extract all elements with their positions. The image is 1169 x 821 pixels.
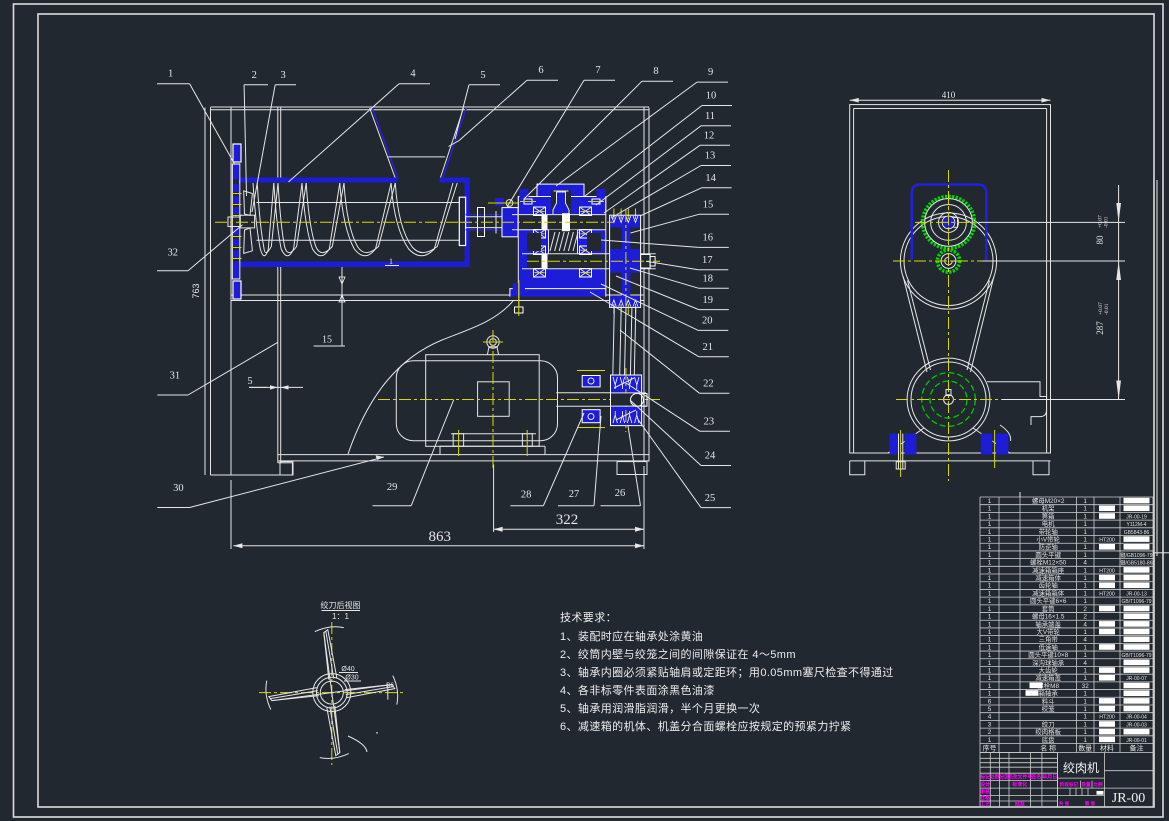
svg-text:6、减速箱的机体、机盖分合面螺栓应按规定的预紧力拧紧: 6、减速箱的机体、机盖分合面螺栓应按规定的预紧力拧紧 [560, 719, 852, 733]
svg-text:4: 4 [988, 714, 992, 721]
svg-text:1: 1 [1083, 544, 1087, 551]
svg-text:31: 31 [170, 370, 181, 381]
big gear white circles [925, 199, 973, 247]
motor horizontal centerline [378, 399, 660, 401]
svg-text:共 张: 共 张 [1059, 800, 1070, 807]
gear mesh hatch [550, 232, 555, 251]
big gear centerlines [915, 221, 978, 223]
upper shaft centerline [460, 221, 613, 223]
big pulley hub [610, 249, 641, 273]
svg-text:24: 24 [705, 451, 716, 462]
svg-text:1: 1 [988, 737, 992, 744]
side frame right corner foot [1033, 461, 1049, 475]
flange bottom cap [234, 282, 241, 299]
lower shaft bearings [534, 246, 546, 255]
belt right edge [971, 276, 995, 372]
svg-text:1: 1 [988, 691, 992, 698]
gearbox top bolts [524, 199, 532, 204]
motor center square [478, 382, 510, 417]
gearbox corner lugs [520, 189, 529, 197]
svg-text:19: 19 [703, 295, 714, 306]
svg-text:1: 1 [988, 590, 992, 597]
svg-text:Y112M-4: Y112M-4 [1127, 522, 1147, 528]
left blue foot [890, 434, 902, 455]
svg-text:GB/T1096-79: GB/T1096-79 [1121, 653, 1151, 659]
gearbox housing [518, 212, 606, 290]
hopper left wall [370, 108, 396, 179]
svg-text:1: 1 [988, 544, 992, 551]
bearing cap yellow marks [535, 211, 545, 213]
base right foot [617, 462, 647, 475]
cutter blade inner cross lines [324, 633, 340, 753]
hopper level line [388, 156, 445, 158]
gearbox top flange band [518, 197, 606, 213]
lower pulley green dashed circles [922, 373, 976, 427]
svg-text:8: 8 [653, 66, 658, 77]
small pulley vertical centerline [625, 368, 627, 432]
motor shaft [556, 392, 610, 394]
dimension 863 [233, 545, 644, 547]
lower shaft white spacer [542, 254, 548, 269]
title block grid [980, 753, 1153, 808]
lower pulley outer [907, 358, 990, 441]
svg-text:螺母M20×2: 螺母M20×2 [1032, 496, 1065, 505]
svg-text:1: 1 [988, 583, 992, 590]
svg-text:名 称: 名 称 [1040, 743, 1056, 752]
svg-text:Ø40: Ø40 [341, 666, 354, 673]
svg-text:4: 4 [1083, 621, 1087, 628]
svg-text:标记: 标记 [979, 774, 990, 781]
cutter centerline vertical [331, 622, 333, 765]
svg-text:29: 29 [387, 482, 398, 493]
svg-text:16: 16 [703, 233, 714, 244]
base plate [278, 454, 649, 456]
svg-text:第 张: 第 张 [1085, 800, 1096, 807]
svg-text:4、各非标零件表面涂黑色油漆: 4、各非标零件表面涂黑色油漆 [560, 683, 715, 697]
leader 30 arrowhead [376, 455, 384, 460]
svg-text:13: 13 [705, 151, 716, 162]
svg-text:JR-00-19: JR-00-19 [1126, 514, 1147, 520]
motor eyebolt [487, 336, 499, 348]
vertical main centerline [948, 170, 950, 481]
svg-text:80: 80 [1095, 235, 1105, 245]
lower pulley center [944, 395, 954, 405]
svg-text:1: 1 [1083, 644, 1087, 651]
svg-text:HT200: HT200 [1099, 591, 1115, 597]
small pulley shaft band [611, 393, 642, 406]
svg-text:深沟球轴承: 深沟球轴承 [1032, 658, 1065, 667]
gearbox side windows [527, 233, 541, 251]
svg-text:2、绞筒内壁与绞笼之间的间隙保证在 4～5mm: 2、绞筒内壁与绞笼之间的间隙保证在 4～5mm [560, 647, 796, 661]
auger barrel top band [239, 178, 398, 183]
svg-text:JR-00-01: JR-00-01 [1126, 738, 1147, 744]
svg-text:1: 1 [988, 537, 992, 544]
small pulley shaft end washer [631, 393, 644, 406]
svg-text:15: 15 [322, 335, 332, 346]
svg-text:30: 30 [173, 483, 184, 494]
svg-text:1: 1 [1083, 506, 1087, 513]
svg-text:17: 17 [702, 255, 713, 266]
svg-text:1: 1 [988, 652, 992, 659]
motor feet [451, 433, 536, 435]
lower shaft through gearbox [527, 254, 656, 269]
machine frame right wall [643, 108, 645, 462]
svg-text:1: 1 [1083, 675, 1087, 682]
svg-text:签名: 签名 [1030, 774, 1041, 781]
big gear green ring [923, 196, 975, 248]
technical requirements text block [560, 611, 894, 733]
svg-text:18: 18 [703, 274, 714, 285]
name leading white blocks rows 25-26 [1030, 683, 1043, 689]
svg-text:JR-00: JR-00 [1112, 791, 1145, 806]
small pulley hatch [614, 378, 634, 388]
svg-text:HT200: HT200 [1099, 568, 1115, 574]
svg-text:电机: 电机 [1042, 519, 1055, 528]
base left foot [280, 462, 293, 475]
dimension 80 with tolerance [1095, 215, 1110, 244]
gearbox input bolt [495, 198, 504, 206]
belt left edge [903, 276, 927, 372]
gearbox housing blue box [912, 185, 987, 261]
cutter blade left [269, 688, 319, 701]
svg-text:410: 410 [942, 90, 956, 100]
svg-text:键/GB5180-86: 键/GB5180-86 [1121, 560, 1153, 567]
svg-text:1: 1 [168, 69, 173, 80]
big pulley web [622, 227, 631, 296]
svg-text:JR-00-07: JR-00-07 [1126, 676, 1147, 682]
machine frame top [211, 106, 650, 108]
svg-text:32: 32 [1082, 683, 1090, 690]
svg-text:1: 1 [1083, 498, 1087, 505]
shaft slinger collar [478, 208, 485, 237]
svg-text:1: 1 [1083, 590, 1087, 597]
svg-text:1：1: 1：1 [332, 612, 349, 621]
svg-text:数量: 数量 [1078, 743, 1092, 752]
big gear keyway mark [954, 218, 958, 228]
svg-text:1: 1 [1083, 729, 1087, 736]
svg-text:批准: 批准 [1015, 801, 1025, 808]
auger shaft to gearbox [466, 214, 519, 216]
svg-text:质量: 质量 [1081, 781, 1091, 788]
svg-text:1: 1 [1083, 698, 1087, 705]
leader 6 tail [449, 141, 460, 147]
vertical dimension line [1118, 185, 1120, 400]
svg-text:JR-00-13: JR-00-13 [1126, 591, 1147, 597]
svg-text:3、轴承内圈必须紧贴轴肩或定距环；用0.05mm塞尺检查不得: 3、轴承内圈必须紧贴轴肩或定距环；用0.05mm塞尺检查不得通过 [560, 665, 894, 679]
svg-text:绞笼: 绞笼 [1042, 704, 1055, 713]
side frame left corner foot [850, 461, 865, 475]
svg-text:322: 322 [556, 512, 579, 528]
svg-text:1: 1 [988, 660, 992, 667]
svg-text:序号: 序号 [983, 743, 997, 752]
inner partition wall left [277, 108, 279, 178]
svg-text:大齿轮: 大齿轮 [1039, 666, 1059, 675]
gearbox housing white edges [517, 197, 519, 291]
hopper right wall [443, 108, 467, 178]
svg-text:26: 26 [615, 488, 626, 499]
svg-text:圆头平键10×8: 圆头平键10×8 [1028, 650, 1068, 659]
svg-text:防逆轴: 防逆轴 [1039, 542, 1058, 551]
svg-text:技术要求：: 技术要求： [560, 611, 617, 624]
title block small white box [1097, 791, 1104, 795]
svg-text:底盘: 底盘 [1042, 735, 1055, 744]
svg-text:1: 1 [988, 506, 992, 513]
svg-text:轴承端盖: 轴承端盖 [1035, 619, 1061, 628]
svg-text:螺母16×1.5: 螺母16×1.5 [1032, 612, 1065, 621]
svg-text:设计: 设计 [980, 781, 990, 788]
gearbox mounting bolt left [513, 283, 525, 296]
svg-text:圆头平键: 圆头平键 [1035, 550, 1061, 559]
svg-text:1: 1 [1083, 513, 1087, 520]
svg-text:料斗: 料斗 [1042, 696, 1055, 705]
svg-text:27: 27 [569, 489, 580, 500]
svg-text:28: 28 [521, 490, 532, 501]
dimension 410 top [850, 99, 1051, 101]
svg-text:1: 1 [1083, 652, 1087, 659]
big pulley top rim with V-grooves [610, 215, 641, 227]
auger barrel bottom band [239, 262, 469, 268]
upper shaft through gearbox [518, 215, 606, 230]
cutter hub circles [313, 674, 351, 712]
svg-text:1: 1 [1083, 567, 1087, 574]
svg-text:5: 5 [248, 376, 253, 387]
svg-text:4: 4 [410, 69, 416, 80]
svg-text:15: 15 [703, 200, 714, 211]
motor feet bolts yellow [458, 430, 460, 456]
svg-text:25: 25 [705, 493, 716, 504]
svg-text:HT200: HT200 [1099, 538, 1115, 544]
svg-text:机架: 机架 [1042, 504, 1055, 513]
big pulley bottom rim with V-grooves [610, 296, 641, 307]
auger centerline [215, 221, 460, 223]
svg-text:12: 12 [704, 131, 715, 142]
side frame bottom rail [850, 460, 1051, 462]
svg-text:1: 1 [1083, 714, 1087, 721]
BOM parts list table [980, 497, 1153, 753]
dimension 5 wall [249, 386, 303, 388]
svg-text:阶段标记: 阶段标记 [1060, 781, 1079, 788]
svg-text:工艺: 工艺 [980, 801, 990, 808]
dimension 287 with tolerance [1095, 302, 1110, 335]
motor body outer [396, 361, 557, 441]
shaft coupling flange [502, 208, 518, 237]
svg-text:21: 21 [703, 342, 714, 353]
upper shaft bearings [534, 207, 546, 216]
svg-text:GB5843-86: GB5843-86 [1124, 530, 1150, 536]
svg-text:2: 2 [988, 729, 992, 736]
svg-text:10: 10 [706, 91, 717, 102]
side view frame [850, 105, 1051, 453]
svg-text:备注: 备注 [1130, 743, 1144, 752]
cutter centerline horizontal [259, 692, 403, 694]
svg-text:1: 1 [988, 621, 992, 628]
svg-text:1: 1 [988, 560, 992, 567]
rotation arc [348, 736, 367, 752]
big pulley vertical centerline [625, 210, 627, 316]
svg-text:1: 1 [988, 668, 992, 675]
svg-text:HT200: HT200 [1099, 715, 1115, 721]
svg-text:标准化: 标准化 [1011, 781, 1027, 788]
upper shaft white spacers [542, 215, 548, 230]
extra vertical line right margin [1156, 180, 1158, 556]
svg-text:14: 14 [705, 173, 716, 184]
auger core cylinder [256, 202, 459, 204]
motor core [426, 355, 540, 447]
cover curve [348, 301, 513, 454]
svg-text:5: 5 [480, 70, 485, 81]
svg-text:1: 1 [988, 575, 992, 582]
left foot bolt [900, 430, 902, 477]
svg-text:1: 1 [1083, 521, 1087, 528]
dimension 322 [494, 528, 644, 530]
svg-text:22: 22 [703, 378, 714, 389]
svg-text:23: 23 [704, 417, 715, 428]
extension lines to dimension [979, 221, 1126, 223]
cutter blade right [345, 685, 395, 698]
svg-text:1: 1 [1083, 737, 1087, 744]
svg-text:箅箱: 箅箱 [1042, 511, 1055, 520]
svg-text:减速箱箱体: 减速箱箱体 [1032, 588, 1065, 597]
right foot bolt [994, 430, 996, 468]
svg-text:绞刀后视图: 绞刀后视图 [321, 600, 361, 610]
motor mount lines [973, 428, 1010, 453]
svg-text:1: 1 [988, 606, 992, 613]
svg-text:减速箱盖: 减速箱盖 [1035, 673, 1061, 682]
motor silhouette right [987, 382, 1047, 425]
dimension 15 gap [341, 267, 343, 346]
stray line right margin [1153, 552, 1169, 554]
svg-text:减速箱箱座: 减速箱箱座 [1032, 565, 1065, 574]
svg-text:1: 1 [988, 675, 992, 682]
svg-text:1: 1 [988, 637, 992, 644]
gearbox interior window center [549, 230, 578, 254]
small pulley [611, 375, 642, 426]
svg-text:1、装配时应在轴承处涂黄油: 1、装配时应在轴承处涂黄油 [560, 629, 703, 643]
svg-text:1: 1 [988, 683, 992, 690]
svg-text:更改文件号: 更改文件号 [1007, 774, 1032, 781]
svg-text:1: 1 [1083, 629, 1087, 636]
auger left flange column [232, 164, 240, 279]
pulley outline [610, 215, 641, 307]
svg-text:减速箱体: 减速箱体 [1035, 573, 1061, 582]
svg-text:1: 1 [1083, 706, 1087, 713]
auger hub bearing square [240, 215, 254, 228]
svg-text:1: 1 [1083, 598, 1087, 605]
svg-text:1: 1 [1083, 575, 1087, 582]
pulley shaft end [641, 255, 651, 269]
svg-text:绞刀: 绞刀 [1042, 719, 1055, 728]
BOM rows text [988, 496, 1153, 744]
svg-text:1: 1 [1083, 552, 1087, 559]
BOM header row labels [983, 743, 1144, 752]
svg-text:1: 1 [988, 521, 992, 528]
svg-text:1: 1 [1083, 537, 1087, 544]
svg-text:JR-00-04: JR-00-04 [1126, 715, 1147, 721]
svg-text:1: 1 [988, 513, 992, 520]
svg-text:螺栓M12×50: 螺栓M12×50 [1030, 558, 1066, 567]
svg-text:2: 2 [252, 70, 257, 81]
small gear hub mark [945, 257, 956, 265]
auger barrel right wall [465, 178, 470, 268]
svg-text:套筒: 套筒 [1042, 604, 1055, 613]
svg-text:年月日: 年月日 [1042, 774, 1057, 781]
svg-text:-0.01: -0.01 [1104, 303, 1110, 315]
svg-text:1: 1 [988, 498, 992, 505]
svg-text:小V带轮: 小V带轮 [1036, 535, 1060, 544]
svg-text:3: 3 [988, 721, 992, 728]
dimension 763 vertical [204, 108, 206, 476]
svg-text:6: 6 [538, 65, 543, 76]
svg-text:材料: 材料 [1100, 743, 1114, 752]
gearbox top hat [537, 184, 584, 198]
svg-text:5、轴承用润滑脂润滑，半个月更换一次: 5、轴承用润滑脂润滑，半个月更换一次 [560, 701, 760, 715]
svg-text:1: 1 [1083, 583, 1087, 590]
svg-text:4: 4 [1083, 637, 1087, 644]
flange top cap [234, 145, 241, 162]
small gear centerline [893, 260, 1004, 262]
cutter blade up [324, 630, 337, 680]
svg-text:1: 1 [988, 598, 992, 605]
svg-text:287: 287 [1095, 321, 1105, 335]
svg-text:11: 11 [705, 111, 715, 122]
svg-text:1: 1 [1083, 721, 1087, 728]
svg-text:763: 763 [191, 283, 201, 298]
svg-text:2: 2 [1083, 606, 1087, 613]
svg-text:5: 5 [988, 706, 992, 713]
svg-text:齿轮轴: 齿轮轴 [1039, 581, 1058, 590]
svg-text:圆头平键6×6: 圆头平键6×6 [1030, 596, 1067, 605]
auger end bearing block [459, 197, 465, 245]
gearbox bottom flange [510, 289, 606, 297]
svg-text:三角带: 三角带 [1039, 635, 1059, 644]
svg-text:JR-00-03: JR-00-03 [1126, 722, 1147, 728]
svg-text:R6: R6 [386, 683, 394, 689]
svg-text:1: 1 [1083, 529, 1087, 536]
svg-text:绞肉格板: 绞肉格板 [1035, 727, 1061, 736]
svg-text:4: 4 [1083, 660, 1087, 667]
coupling flanges [582, 376, 600, 387]
svg-text:6: 6 [988, 698, 992, 705]
svg-text:比例: 比例 [1093, 781, 1103, 788]
mid shelf [231, 294, 644, 296]
lower pulley centerline horizontal [896, 399, 1002, 401]
svg-text:7: 7 [595, 65, 600, 76]
svg-text:4: 4 [1083, 560, 1087, 567]
svg-text:1: 1 [988, 529, 992, 536]
svg-text:1: 1 [1083, 668, 1087, 675]
svg-text:32: 32 [168, 248, 179, 259]
svg-text:1: 1 [988, 629, 992, 636]
svg-text:2: 2 [1083, 614, 1087, 621]
svg-text:1: 1 [389, 257, 393, 266]
small gear white circle [941, 254, 956, 269]
svg-text:低速轴: 低速轴 [1039, 642, 1058, 651]
svg-text:863: 863 [429, 529, 452, 545]
machine frame left stand wall [210, 108, 212, 476]
svg-text:1: 1 [988, 644, 992, 651]
big pulley circle upper [900, 213, 996, 309]
gearbox top hat slot [551, 190, 571, 214]
svg-text:3: 3 [280, 70, 285, 81]
svg-text:合格: 合格 [979, 794, 991, 801]
svg-text:Ø30: Ø30 [345, 675, 358, 682]
svg-text:1: 1 [1083, 691, 1087, 698]
small gear green ring [937, 250, 959, 272]
svg-text:1: 1 [988, 567, 992, 574]
big gear blue center [942, 216, 955, 229]
belt lines [613, 307, 615, 375]
auger helix flights [253, 183, 274, 256]
